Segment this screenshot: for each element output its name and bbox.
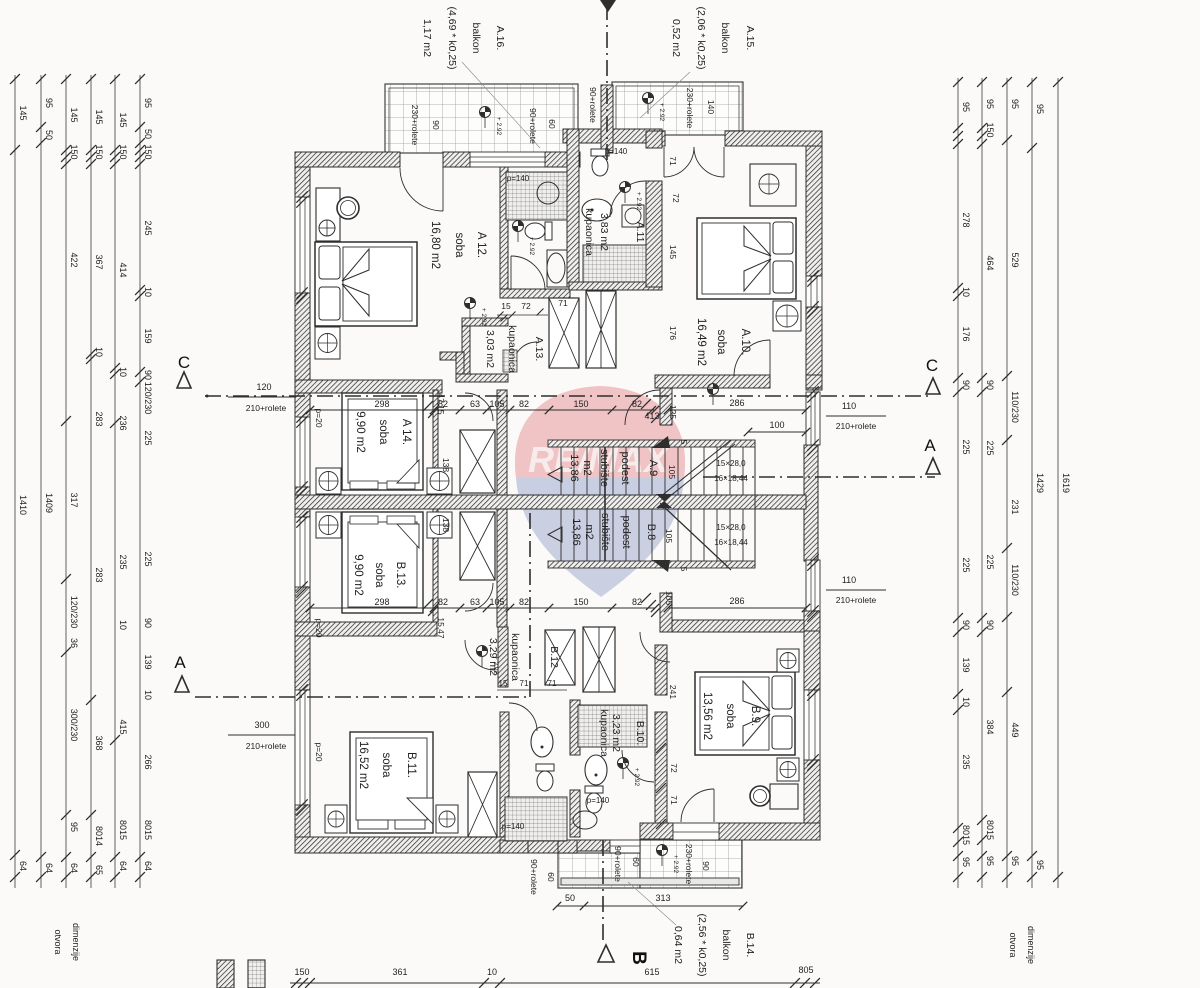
svg-text:225: 225 xyxy=(961,557,971,572)
door B.10 xyxy=(622,750,654,782)
svg-text:+ 2.92: + 2.92 xyxy=(658,103,665,122)
section line B top xyxy=(606,4,608,160)
dim line L4 xyxy=(90,75,92,888)
dim line R1 xyxy=(957,78,959,888)
svg-text:A.13.: A.13. xyxy=(533,337,545,362)
window B.13 xyxy=(295,517,310,587)
svg-text:210+rolete: 210+rolete xyxy=(836,595,877,605)
nightstand B.9 bottom xyxy=(777,758,799,781)
shower tile A.13 xyxy=(503,350,517,372)
svg-text:64: 64 xyxy=(18,861,28,871)
door A.10 balcony left leaf xyxy=(664,147,694,177)
svg-text:50: 50 xyxy=(565,893,575,903)
shower tiles A.12 bath xyxy=(506,172,567,220)
svg-text:15: 15 xyxy=(501,301,511,311)
svg-text:B.8: B.8 xyxy=(645,524,657,541)
svg-text:95: 95 xyxy=(44,98,54,108)
bottom wall under B.10 east xyxy=(640,823,673,839)
svg-text:podest: podest xyxy=(619,451,631,484)
svg-text:B.10.: B.10. xyxy=(634,721,646,746)
svg-text:300/230: 300/230 xyxy=(69,709,79,742)
svg-text:361: 361 xyxy=(392,967,407,977)
B.9 top wall xyxy=(670,620,804,632)
door B.12 xyxy=(509,703,537,731)
svg-text:120/230: 120/230 xyxy=(143,382,153,415)
dim 286 upper xyxy=(668,409,806,411)
svg-text:16×18,44: 16×18,44 xyxy=(714,538,748,547)
bed B.11 xyxy=(350,732,433,833)
svg-text:9,90 m2: 9,90 m2 xyxy=(354,411,366,453)
tick clusters corridor xyxy=(641,399,651,409)
svg-text:464: 464 xyxy=(985,255,995,270)
stair treads upper flight xyxy=(560,447,562,495)
svg-text:m2: m2 xyxy=(583,524,595,539)
svg-text:10: 10 xyxy=(94,347,104,357)
section line A right xyxy=(703,476,935,478)
svg-text:5: 5 xyxy=(679,440,689,445)
svg-text:225: 225 xyxy=(961,439,971,454)
svg-text:+ 2.92: + 2.92 xyxy=(495,117,502,136)
svg-text:3,23 m2: 3,23 m2 xyxy=(610,714,622,752)
door A.11 xyxy=(610,181,646,217)
svg-text:p=140: p=140 xyxy=(587,796,610,805)
leader B.14 xyxy=(628,882,676,925)
marker B bottom xyxy=(598,945,614,962)
top wall mid part xyxy=(443,152,470,167)
mini dim top corridor xyxy=(497,314,548,316)
dim 286 lower xyxy=(668,607,806,609)
wardrobe hall A 1 xyxy=(549,298,579,368)
svg-text:150: 150 xyxy=(985,122,995,137)
A.13 bath top wall xyxy=(462,318,508,326)
B marker top flag xyxy=(600,0,616,12)
light symbol A.12 xyxy=(465,298,476,309)
svg-text:p=20: p=20 xyxy=(314,742,324,761)
svg-text:90: 90 xyxy=(143,618,153,628)
door A.12 balcony xyxy=(400,168,443,211)
nightstand B.9 top xyxy=(777,649,799,672)
window corridor N xyxy=(806,392,820,445)
A.12 wall jog b xyxy=(456,352,464,380)
svg-text:soba: soba xyxy=(377,420,389,446)
svg-text:110: 110 xyxy=(842,575,856,585)
svg-text:82: 82 xyxy=(519,597,529,607)
svg-text:95: 95 xyxy=(985,856,995,866)
A.12/A.14 divider wall xyxy=(295,380,442,393)
toilet B.10 xyxy=(585,786,603,813)
wardrobe B.11 xyxy=(468,772,497,837)
svg-text:313: 313 xyxy=(655,893,670,903)
A.11 east wall xyxy=(646,181,662,287)
svg-text:otvora: otvora xyxy=(53,929,63,954)
svg-text:p=20: p=20 xyxy=(314,408,324,427)
svg-text:95: 95 xyxy=(961,857,971,867)
svg-text:150: 150 xyxy=(143,144,153,159)
drain circle A.12 bath xyxy=(537,182,559,204)
svg-text:3,03 m2: 3,03 m2 xyxy=(484,330,496,368)
svg-text:50: 50 xyxy=(143,129,153,139)
corridor wall upper xyxy=(497,390,507,495)
door A.10 balcony right leaf xyxy=(694,147,724,177)
section line C xyxy=(205,395,930,397)
window corridor S xyxy=(806,560,820,611)
svg-text:B: B xyxy=(628,951,649,965)
balcony A.16 floor xyxy=(385,84,578,153)
svg-text:615: 615 xyxy=(644,967,659,977)
svg-text:422: 422 xyxy=(69,252,79,267)
svg-text:0,64 m2: 0,64 m2 xyxy=(672,926,684,964)
svg-text:16,80 m2: 16,80 m2 xyxy=(429,221,441,269)
svg-text:kupaonica: kupaonica xyxy=(598,709,610,757)
svg-text:139: 139 xyxy=(961,657,971,672)
svg-text:podest: podest xyxy=(620,515,632,548)
svg-text:138: 138 xyxy=(441,518,451,532)
stairwell xyxy=(548,440,755,447)
svg-text:140: 140 xyxy=(706,100,716,114)
nightstand B.11 left xyxy=(325,805,347,833)
B.13/B.11 divider wall xyxy=(295,622,437,636)
svg-text:B.11.: B.11. xyxy=(405,752,417,778)
stair center rail xyxy=(604,447,606,561)
svg-text:230+rolete: 230+rolete xyxy=(685,88,695,129)
svg-text:(2,06 * k0,25): (2,06 * k0,25) xyxy=(695,6,707,69)
door A.10 entry xyxy=(734,340,770,376)
washing machine A.11 xyxy=(622,205,644,227)
svg-text:145: 145 xyxy=(668,245,678,259)
svg-text:63: 63 xyxy=(470,597,480,607)
svg-text:10: 10 xyxy=(961,287,971,297)
wardrobe hall A 2 xyxy=(586,291,616,368)
A.10 top wall east xyxy=(725,131,822,146)
svg-text:9,90 m2: 9,90 m2 xyxy=(352,554,364,596)
door B.11 xyxy=(465,640,495,670)
svg-text:1429: 1429 xyxy=(1035,473,1045,493)
svg-text:B.9.: B.9. xyxy=(749,706,761,726)
svg-text:138: 138 xyxy=(441,458,451,472)
svg-text:soba: soba xyxy=(724,704,736,730)
svg-text:10: 10 xyxy=(118,620,128,630)
shower tiles B.10 xyxy=(578,705,647,747)
light symbol corridor xyxy=(708,384,719,395)
sink A.12 bath xyxy=(547,250,567,287)
dim line L1 xyxy=(14,75,16,888)
svg-text:A 12.: A 12. xyxy=(475,232,487,258)
svg-text:105: 105 xyxy=(664,529,674,543)
svg-text:60: 60 xyxy=(631,857,641,867)
left outer wall xyxy=(295,152,310,853)
svg-text:balkon: balkon xyxy=(719,23,731,54)
light symbol hall B xyxy=(477,646,488,657)
svg-text:95: 95 xyxy=(69,822,79,832)
svg-text:159: 159 xyxy=(143,328,153,343)
wardrobe B.13 xyxy=(460,512,495,580)
svg-text:m2: m2 xyxy=(581,460,593,475)
svg-text:283: 283 xyxy=(94,411,104,426)
A.10 right wall upper xyxy=(806,146,822,276)
bed B.9 xyxy=(695,672,795,755)
svg-text:A.10.: A.10. xyxy=(739,329,751,356)
dim line L3 xyxy=(65,75,67,888)
wardrobe A.14 xyxy=(460,430,495,493)
svg-text:otvora: otvora xyxy=(1008,932,1018,957)
window A.14 xyxy=(295,417,310,487)
svg-text:317: 317 xyxy=(69,492,79,507)
svg-text:286: 286 xyxy=(729,596,744,606)
middle floor wall xyxy=(295,495,806,509)
dim 100 xyxy=(748,431,806,433)
svg-text:64: 64 xyxy=(118,861,128,871)
svg-text:64: 64 xyxy=(69,863,79,873)
balcony dim 50/313 xyxy=(557,905,743,907)
svg-text:8015: 8015 xyxy=(961,825,971,845)
svg-text:36: 36 xyxy=(69,638,79,648)
stair break diagonals xyxy=(660,440,731,497)
svg-text:A: A xyxy=(174,653,186,672)
svg-text:10: 10 xyxy=(961,697,971,707)
svg-text:71: 71 xyxy=(668,156,678,166)
svg-text:p=140: p=140 xyxy=(502,822,525,831)
dim line L6 xyxy=(139,75,141,888)
svg-text:90: 90 xyxy=(961,380,971,390)
svg-text:82: 82 xyxy=(632,597,642,607)
svg-text:95: 95 xyxy=(1035,104,1045,114)
svg-text:B.13.: B.13. xyxy=(394,562,406,589)
A.12 wall jog a xyxy=(440,352,464,360)
bottom wall pier xyxy=(500,840,528,853)
bed A.12 xyxy=(315,242,417,326)
svg-text:soba: soba xyxy=(380,753,392,779)
svg-text:13,86: 13,86 xyxy=(568,454,580,482)
dot after C left xyxy=(206,395,209,398)
svg-text:+ 2.92: + 2.92 xyxy=(635,192,642,211)
balcony B.14 floor xyxy=(640,840,742,888)
svg-text:236: 236 xyxy=(118,415,128,430)
svg-text:8014: 8014 xyxy=(94,826,104,846)
window A.10 xyxy=(806,276,822,307)
svg-text:95: 95 xyxy=(985,99,995,109)
svg-text:150: 150 xyxy=(118,144,128,159)
svg-text:1409: 1409 xyxy=(44,493,54,513)
top wall east part xyxy=(545,152,580,167)
svg-text:100: 100 xyxy=(769,420,784,430)
svg-text:95: 95 xyxy=(1035,860,1045,870)
balcony A.15 floor xyxy=(612,82,743,135)
door A.14 xyxy=(465,393,493,421)
svg-text:210+rolete: 210+rolete xyxy=(246,403,287,413)
sink B.10 xyxy=(585,755,607,785)
svg-text:5: 5 xyxy=(679,567,689,572)
svg-text:60: 60 xyxy=(547,119,557,129)
hall wall xyxy=(498,627,508,687)
dim line R2 xyxy=(981,78,983,888)
svg-text:150: 150 xyxy=(573,597,588,607)
svg-text:150: 150 xyxy=(573,399,588,409)
svg-text:414: 414 xyxy=(118,262,128,277)
A.10 bottom wall e xyxy=(806,375,822,388)
svg-text:A.15.: A.15. xyxy=(744,26,756,51)
balcony door B.10 xyxy=(610,840,640,853)
svg-text:p=20: p=20 xyxy=(314,618,324,637)
svg-text:0,52 m2: 0,52 m2 xyxy=(670,19,682,57)
svg-text:90+rolete: 90+rolete xyxy=(528,108,538,144)
dim line R3 xyxy=(1006,78,1008,888)
svg-text:65: 65 xyxy=(94,865,104,875)
A.12 east wall xyxy=(500,167,508,292)
desk B.9 with chair xyxy=(770,784,798,809)
dimension row lower xyxy=(310,607,655,609)
watermark remax balloon xyxy=(515,386,685,597)
svg-text:95: 95 xyxy=(143,98,153,108)
svg-text:p=140: p=140 xyxy=(605,147,628,156)
dim line R4 xyxy=(1031,78,1033,888)
svg-text:300: 300 xyxy=(254,720,269,730)
sink B.12 xyxy=(531,727,553,757)
nightstand B.11 right xyxy=(436,805,458,833)
bed A.10 xyxy=(697,218,796,299)
svg-text:71: 71 xyxy=(520,679,529,688)
svg-text:90: 90 xyxy=(431,120,441,130)
svg-text:13,86: 13,86 xyxy=(570,518,582,546)
bottom wall under B.11 xyxy=(295,837,560,853)
svg-text:298: 298 xyxy=(374,399,389,409)
legend swatch 2 xyxy=(248,960,265,988)
bed A.14 xyxy=(342,393,423,490)
svg-text:soba: soba xyxy=(715,330,727,356)
svg-text:176: 176 xyxy=(961,326,971,341)
wardrobe hall B 1 xyxy=(545,630,575,685)
shower tiles B.12 xyxy=(505,797,567,841)
svg-text:125: 125 xyxy=(668,405,678,419)
nightstand A.12 bottom xyxy=(315,327,340,359)
svg-text:110: 110 xyxy=(842,401,856,411)
lightsym A.12 wall top xyxy=(319,220,335,236)
shower tiles A.11 xyxy=(583,245,646,282)
light symbol balcony B.14 xyxy=(657,845,668,856)
svg-text:71: 71 xyxy=(558,298,568,308)
svg-text:110/230: 110/230 xyxy=(1010,391,1020,423)
svg-text:16,52 m2: 16,52 m2 xyxy=(357,741,369,789)
svg-text:B.12: B.12 xyxy=(548,646,560,668)
svg-text:90+rolete: 90+rolete xyxy=(588,87,598,123)
window A.12 top wall xyxy=(470,152,545,167)
svg-text:105: 105 xyxy=(489,597,504,607)
svg-text:210+rolete: 210+rolete xyxy=(836,421,877,431)
svg-text:C: C xyxy=(926,356,938,375)
svg-text:B.14.: B.14. xyxy=(744,933,756,958)
right wall pier xyxy=(804,611,820,631)
svg-text:+ 2.92: + 2.92 xyxy=(492,656,499,675)
svg-text:225: 225 xyxy=(143,430,153,445)
balcony door B.9 xyxy=(673,823,719,840)
svg-text:72: 72 xyxy=(671,193,681,203)
svg-text:95: 95 xyxy=(1010,99,1020,109)
svg-text:+ 2.92: + 2.92 xyxy=(480,308,487,327)
svg-text:235: 235 xyxy=(961,754,971,769)
svg-text:805: 805 xyxy=(798,965,813,975)
stair treads lower flight xyxy=(560,509,562,561)
svg-text:95: 95 xyxy=(1010,856,1020,866)
B.12/B.10 divider upper xyxy=(570,700,580,755)
dimension row upper xyxy=(310,409,655,411)
A.10 right wall lower xyxy=(806,307,822,390)
svg-text:95: 95 xyxy=(961,102,971,112)
svg-text:90: 90 xyxy=(961,620,971,630)
svg-text:71: 71 xyxy=(669,795,679,805)
B.10 east wall upper xyxy=(655,645,667,695)
stair start triangles xyxy=(548,467,562,482)
svg-text:1410: 1410 xyxy=(18,495,28,515)
sink A.11 xyxy=(582,199,612,221)
svg-text:stubište: stubište xyxy=(599,513,611,551)
window B.11 xyxy=(295,690,310,805)
svg-text:225: 225 xyxy=(143,551,153,566)
leader A.15 xyxy=(640,72,690,118)
dim line L2 xyxy=(40,75,42,888)
svg-text:15: 15 xyxy=(499,679,508,688)
svg-text:384: 384 xyxy=(985,719,995,734)
door B.9 south xyxy=(713,789,715,822)
svg-text:230+rolete: 230+rolete xyxy=(410,105,420,146)
svg-text:230+rolete: 230+rolete xyxy=(684,844,694,885)
nightstand A.10 bottom xyxy=(773,301,801,331)
svg-text:10: 10 xyxy=(487,967,497,977)
light symbol A.12 bath xyxy=(513,221,524,232)
svg-text:245: 245 xyxy=(143,220,153,235)
wall between top balconies xyxy=(601,85,613,153)
svg-text:balkon: balkon xyxy=(720,930,732,961)
svg-text:kupaonica: kupaonica xyxy=(509,633,521,681)
svg-text:368: 368 xyxy=(94,735,104,750)
svg-text:50: 50 xyxy=(44,130,54,140)
svg-text:1,17 m2: 1,17 m2 xyxy=(421,19,433,57)
bottom balcony left floor xyxy=(558,853,640,888)
desk A.10 xyxy=(750,164,796,206)
svg-text:+ 2.92: + 2.92 xyxy=(633,768,640,787)
svg-text:225: 225 xyxy=(985,554,995,569)
svg-text:64: 64 xyxy=(143,861,153,871)
toilet A.11 xyxy=(591,149,609,176)
svg-text:60: 60 xyxy=(546,872,556,882)
light symbol A.11 xyxy=(620,182,631,193)
toilet A.12 bath xyxy=(525,222,552,240)
svg-text:10: 10 xyxy=(143,287,153,297)
svg-text:150: 150 xyxy=(94,144,104,159)
svg-text:3,83 m2: 3,83 m2 xyxy=(598,213,610,251)
window A.12 xyxy=(295,197,310,293)
svg-text:balkon: balkon xyxy=(470,23,482,54)
mini dim bottom corridor xyxy=(497,689,567,691)
svg-text:90+rolete: 90+rolete xyxy=(529,859,539,895)
bed B.13 xyxy=(342,512,423,613)
desk A.12 with chair xyxy=(316,188,340,241)
section line B bottom xyxy=(602,840,604,942)
section line A left xyxy=(195,696,530,698)
svg-text:82: 82 xyxy=(632,399,642,409)
svg-text:A.16.: A.16. xyxy=(494,26,506,51)
svg-text:+ 2.92: + 2.92 xyxy=(672,855,679,874)
A.11 east wall pier xyxy=(646,131,662,148)
svg-text:(2,56 * k0,25): (2,56 * k0,25) xyxy=(696,913,708,976)
thin wall B.13 east xyxy=(433,509,438,622)
svg-text:15×28,0: 15×28,0 xyxy=(716,523,746,532)
wardrobe hall B 2 xyxy=(583,627,615,692)
top wall west part xyxy=(295,152,400,167)
light symbol B.10 xyxy=(618,758,629,769)
svg-text:8015: 8015 xyxy=(143,820,153,840)
svg-text:soba: soba xyxy=(373,563,385,589)
B.9 bottom wall xyxy=(719,823,820,840)
ticks B.10 east wall xyxy=(656,743,666,753)
